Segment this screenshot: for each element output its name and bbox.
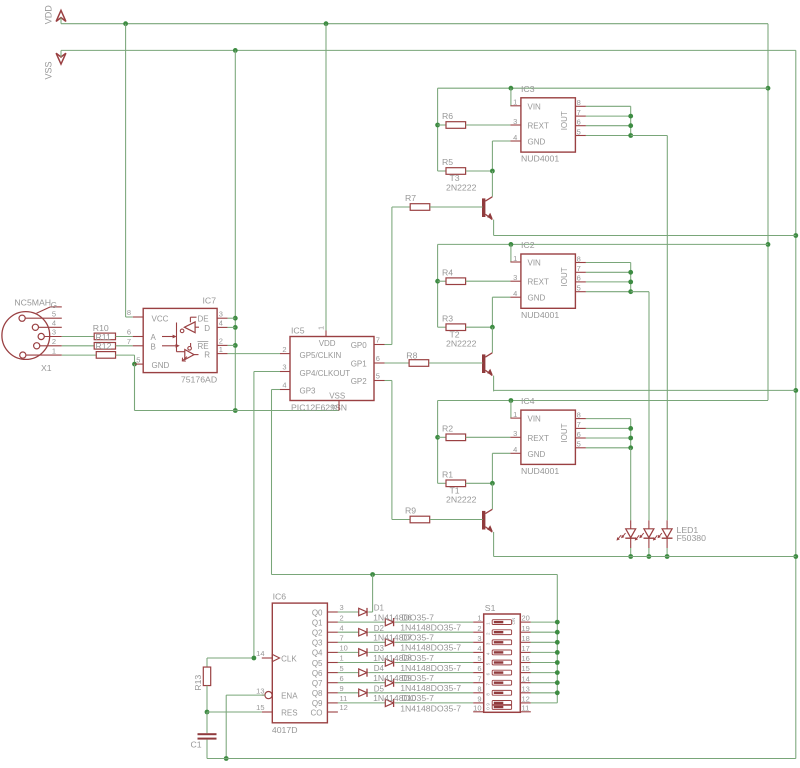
svg-text:5: 5	[577, 440, 581, 449]
svg-text:IC2: IC2	[521, 240, 535, 250]
svg-text:3: 3	[513, 273, 517, 282]
svg-text:1: 1	[513, 254, 517, 263]
svg-text:15: 15	[522, 664, 530, 673]
svg-text:2: 2	[282, 345, 286, 354]
svg-text:7: 7	[577, 108, 581, 117]
svg-text:GP1: GP1	[351, 360, 368, 369]
svg-text:D4: D4	[374, 664, 385, 673]
svg-text:VCC: VCC	[152, 315, 169, 324]
svg-text:1N4148DO35-7: 1N4148DO35-7	[373, 673, 434, 683]
svg-text:75176AD: 75176AD	[181, 375, 217, 385]
svg-text:D: D	[204, 324, 210, 333]
svg-text:4: 4	[513, 445, 517, 454]
svg-text:RES: RES	[281, 709, 297, 718]
svg-text:19: 19	[522, 624, 530, 633]
svg-text:7: 7	[127, 337, 131, 346]
svg-text:7: 7	[577, 264, 581, 273]
svg-text:8: 8	[477, 684, 481, 693]
svg-text:8: 8	[577, 98, 581, 107]
svg-text:7: 7	[340, 634, 344, 643]
svg-text:GP2: GP2	[351, 377, 368, 386]
svg-text:Q1: Q1	[312, 618, 323, 627]
svg-text:6: 6	[127, 328, 131, 337]
svg-text:1N4148DO35-7: 1N4148DO35-7	[400, 683, 461, 693]
svg-text:4: 4	[513, 133, 517, 142]
svg-text:IOUT: IOUT	[560, 267, 569, 286]
svg-text:ENA: ENA	[281, 692, 298, 701]
svg-text:ON: ON	[511, 618, 516, 625]
svg-text:D1: D1	[374, 604, 385, 613]
svg-text:IC4: IC4	[521, 396, 535, 406]
svg-text:7: 7	[577, 420, 581, 429]
svg-text:4: 4	[340, 623, 344, 632]
svg-text:5: 5	[577, 284, 581, 293]
svg-text:8: 8	[577, 410, 581, 419]
svg-text:5: 5	[52, 309, 56, 318]
svg-text:D3: D3	[374, 644, 385, 653]
svg-text:NUD4001: NUD4001	[521, 466, 559, 476]
svg-text:IOUT: IOUT	[560, 111, 569, 130]
svg-text:8: 8	[330, 405, 339, 409]
svg-text:IC3: IC3	[521, 84, 535, 94]
svg-text:1N4148DO35-7: 1N4148DO35-7	[373, 693, 434, 703]
svg-text:Q9: Q9	[312, 699, 323, 708]
svg-text:6: 6	[577, 274, 581, 283]
svg-text:14: 14	[522, 674, 530, 683]
svg-text:3: 3	[340, 603, 344, 612]
svg-text:REXT: REXT	[528, 434, 549, 443]
svg-text:R9: R9	[405, 506, 416, 516]
svg-text:1: 1	[340, 654, 344, 663]
svg-text:9: 9	[477, 695, 481, 704]
svg-text:GP0: GP0	[351, 341, 368, 350]
svg-text:1N4148DO35-7: 1N4148DO35-7	[400, 663, 461, 673]
svg-text:Q6: Q6	[312, 669, 323, 678]
svg-text:DE: DE	[198, 315, 209, 324]
svg-text:NUD4001: NUD4001	[521, 154, 559, 164]
svg-text:8: 8	[577, 254, 581, 263]
svg-text:R12: R12	[96, 341, 112, 351]
svg-text:11: 11	[522, 703, 530, 712]
svg-text:C1: C1	[191, 740, 202, 750]
svg-text:VIN: VIN	[528, 259, 542, 268]
svg-text:2N2222: 2N2222	[446, 182, 477, 192]
svg-text:3: 3	[513, 429, 517, 438]
svg-text:18: 18	[522, 634, 530, 643]
svg-text:1: 1	[52, 346, 56, 355]
svg-text:NC5MAH: NC5MAH	[14, 298, 51, 308]
svg-text:GP4/CLKOUT: GP4/CLKOUT	[300, 369, 351, 378]
svg-text:2N2222: 2N2222	[446, 339, 477, 349]
svg-text:12: 12	[340, 703, 348, 712]
svg-text:VIN: VIN	[528, 102, 542, 111]
svg-text:Q3: Q3	[312, 639, 323, 648]
svg-text:CLK: CLK	[281, 655, 297, 664]
svg-text:R8: R8	[406, 351, 417, 361]
svg-text:15: 15	[256, 703, 264, 712]
svg-text:14: 14	[256, 649, 264, 658]
svg-text:X1: X1	[41, 363, 52, 373]
svg-text:IC5: IC5	[291, 325, 305, 335]
svg-text:R3: R3	[442, 313, 453, 323]
svg-text:Q2: Q2	[312, 629, 323, 638]
svg-text:Q0: Q0	[312, 608, 323, 617]
svg-text:6: 6	[340, 674, 344, 683]
svg-text:5: 5	[136, 355, 140, 364]
svg-text:GND: GND	[528, 294, 546, 303]
svg-text:2: 2	[340, 613, 344, 622]
svg-text:4017D: 4017D	[272, 725, 298, 735]
svg-text:GND: GND	[528, 138, 546, 147]
svg-text:B: B	[151, 342, 156, 351]
svg-text:S1: S1	[485, 603, 496, 613]
svg-text:REXT: REXT	[528, 278, 549, 287]
svg-text:5: 5	[477, 654, 481, 663]
svg-text:2: 2	[477, 624, 481, 633]
svg-text:VSS: VSS	[44, 61, 54, 79]
svg-text:4: 4	[477, 644, 481, 653]
svg-text:6: 6	[477, 664, 481, 673]
svg-text:12: 12	[522, 695, 530, 704]
svg-text:3: 3	[52, 328, 56, 337]
svg-text:1: 1	[317, 326, 326, 330]
svg-text:20: 20	[522, 614, 530, 623]
svg-text:6: 6	[577, 430, 581, 439]
svg-text:10: 10	[473, 703, 481, 712]
svg-text:REXT: REXT	[528, 122, 549, 131]
svg-text:IC7: IC7	[203, 296, 217, 306]
svg-text:D2: D2	[374, 624, 385, 633]
svg-text:3: 3	[513, 117, 517, 126]
svg-text:NUD4001: NUD4001	[521, 310, 559, 320]
svg-text:5: 5	[340, 664, 344, 673]
svg-text:1N4148DO35-7: 1N4148DO35-7	[373, 612, 434, 622]
svg-text:R13: R13	[193, 675, 203, 691]
svg-text:Q8: Q8	[312, 689, 323, 698]
svg-text:4: 4	[219, 319, 223, 328]
svg-text:1: 1	[513, 98, 517, 107]
svg-text:GP3: GP3	[300, 387, 317, 396]
svg-text:4: 4	[513, 289, 517, 298]
svg-text:5: 5	[577, 127, 581, 136]
svg-text:R5: R5	[442, 157, 453, 167]
svg-text:11: 11	[340, 694, 348, 703]
svg-text:VDD: VDD	[44, 5, 54, 25]
svg-text:2N2222: 2N2222	[446, 495, 477, 505]
svg-text:6: 6	[376, 354, 380, 363]
svg-text:Q7: Q7	[312, 679, 323, 688]
svg-text:7: 7	[376, 336, 380, 345]
svg-text:4: 4	[282, 381, 286, 390]
svg-text:3: 3	[219, 309, 223, 318]
svg-text:VSS: VSS	[329, 391, 345, 400]
svg-text:R2: R2	[442, 424, 453, 434]
svg-text:3: 3	[282, 363, 286, 372]
svg-text:16: 16	[522, 654, 530, 663]
svg-text:D5: D5	[374, 684, 385, 693]
svg-text:G: G	[51, 301, 57, 310]
svg-text:GP5/CLKIN: GP5/CLKIN	[300, 351, 342, 360]
svg-text:7: 7	[477, 674, 481, 683]
svg-text:2: 2	[52, 337, 56, 346]
svg-text:VDD: VDD	[319, 339, 336, 348]
svg-text:1N4148DO35-7: 1N4148DO35-7	[400, 643, 461, 653]
svg-text:R7: R7	[405, 193, 416, 203]
svg-text:6: 6	[577, 118, 581, 127]
svg-text:1: 1	[477, 614, 481, 623]
svg-text:IC6: IC6	[273, 592, 287, 602]
svg-text:R4: R4	[442, 267, 453, 277]
svg-text:R6: R6	[442, 111, 453, 121]
svg-text:1N4148DO35-7: 1N4148DO35-7	[373, 653, 434, 663]
svg-text:8: 8	[127, 308, 131, 317]
svg-text:F50380: F50380	[677, 533, 707, 543]
svg-text:R1: R1	[442, 470, 453, 480]
svg-text:13: 13	[522, 684, 530, 693]
svg-text:R: R	[204, 350, 210, 359]
svg-text:IOUT: IOUT	[560, 423, 569, 442]
svg-text:GND: GND	[528, 450, 546, 459]
svg-text:1N4148DO35-7: 1N4148DO35-7	[400, 703, 461, 713]
svg-text:1: 1	[513, 410, 517, 419]
svg-text:Q4: Q4	[312, 649, 323, 658]
svg-text:4: 4	[52, 319, 56, 328]
svg-text:17: 17	[522, 644, 530, 653]
svg-text:1: 1	[219, 345, 223, 354]
svg-text:GND: GND	[152, 361, 170, 370]
svg-text:CO: CO	[311, 708, 323, 717]
svg-text:A: A	[151, 333, 157, 342]
svg-text:1N4148DO35-7: 1N4148DO35-7	[400, 623, 461, 633]
svg-text:5: 5	[376, 372, 380, 381]
svg-text:10: 10	[340, 644, 348, 653]
svg-text:1N4148DO35-7: 1N4148DO35-7	[373, 633, 434, 643]
svg-text:Q5: Q5	[312, 659, 323, 668]
svg-text:9: 9	[340, 684, 344, 693]
svg-text:13: 13	[256, 686, 264, 695]
svg-text:3: 3	[477, 634, 481, 643]
svg-text:VIN: VIN	[528, 415, 542, 424]
